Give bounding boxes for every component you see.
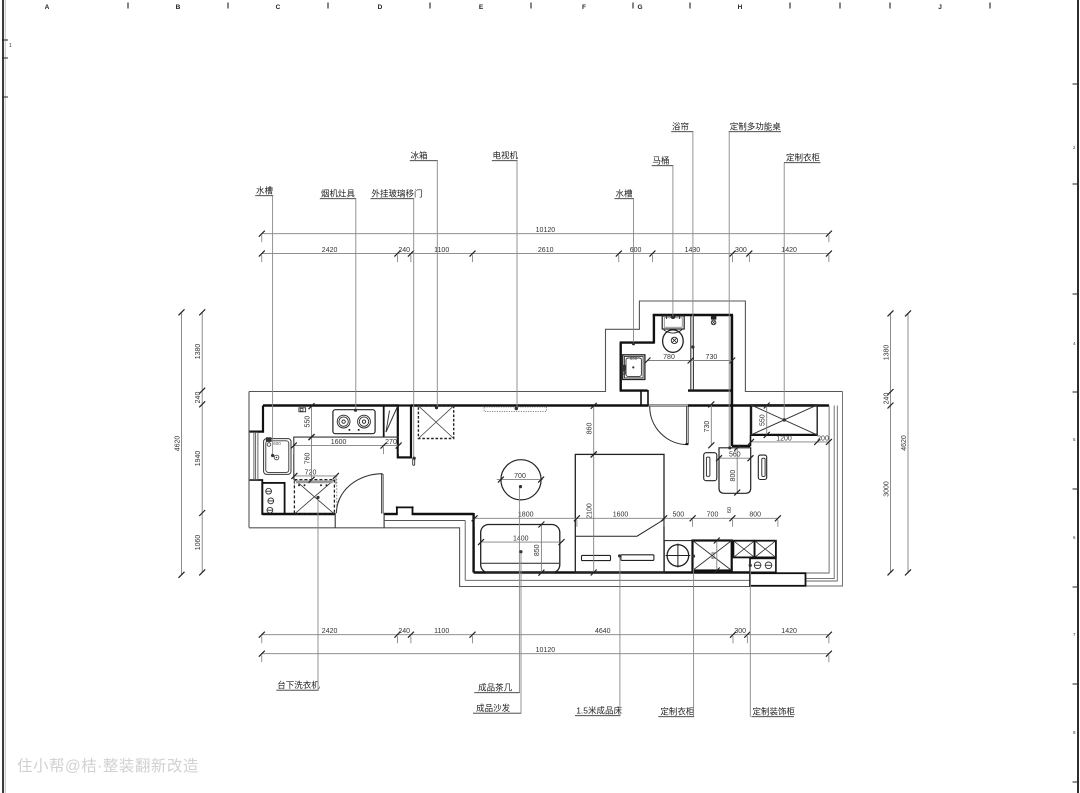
tea table circle 700 bbox=[501, 460, 541, 500]
svg-text:240: 240 bbox=[883, 393, 890, 405]
sliding door stub bbox=[413, 458, 415, 465]
svg-text:电视机: 电视机 bbox=[493, 151, 519, 161]
svg-text:1100: 1100 bbox=[434, 247, 449, 254]
svg-text:4620: 4620 bbox=[174, 436, 181, 452]
svg-text:C: C bbox=[276, 4, 281, 11]
svg-text:成品茶几: 成品茶几 bbox=[478, 683, 513, 693]
dims 1800/1600/500/700/800 bbox=[475, 517, 778, 519]
bathroom bottom wall bbox=[620, 389, 648, 391]
washer dim 720 bbox=[294, 475, 336, 477]
entry platform bbox=[750, 573, 806, 586]
top ruler ticks bbox=[127, 3, 129, 9]
svg-text:1380: 1380 bbox=[195, 344, 202, 360]
svg-text:600: 600 bbox=[273, 441, 281, 446]
svg-text:2100: 2100 bbox=[587, 503, 594, 519]
svg-text:1600: 1600 bbox=[613, 512, 629, 519]
svg-text:定制多功能桌: 定制多功能桌 bbox=[730, 122, 782, 132]
bathroom wall left bbox=[653, 315, 655, 344]
wardrobe 700 x-box bbox=[693, 541, 732, 571]
wall middle line right section bbox=[465, 579, 750, 581]
svg-text:4620: 4620 bbox=[901, 435, 908, 451]
svg-text:H: H bbox=[738, 4, 743, 11]
kitchen counter edge bbox=[294, 437, 399, 480]
bathroom sink bbox=[623, 355, 645, 380]
svg-text:1100: 1100 bbox=[434, 628, 449, 635]
svg-text:J: J bbox=[938, 4, 942, 11]
svg-text:马桶: 马桶 bbox=[653, 156, 670, 166]
entry pillar bump bbox=[397, 507, 413, 513]
svg-text:730: 730 bbox=[704, 421, 711, 433]
svg-text:1380: 1380 bbox=[883, 345, 890, 361]
svg-text:外挂玻璃移门: 外挂玻璃移门 bbox=[372, 189, 423, 199]
left outer dim 4620 bbox=[181, 312, 183, 575]
top dim row 10120 bbox=[262, 233, 829, 235]
left ruler ticks bbox=[2, 39, 8, 41]
bathroom dims 780/730 bbox=[648, 360, 733, 362]
svg-text:4640: 4640 bbox=[595, 628, 611, 635]
kitchen dim 760 bbox=[311, 437, 313, 480]
dish rack bbox=[383, 406, 385, 437]
decor cabinet x-boxes bbox=[733, 541, 754, 558]
svg-text:850: 850 bbox=[534, 544, 541, 556]
svg-text:200: 200 bbox=[817, 435, 829, 442]
dim 730 desk bbox=[710, 404, 712, 445]
svg-text:1060: 1060 bbox=[195, 535, 202, 551]
svg-text:成品沙发: 成品沙发 bbox=[476, 703, 511, 713]
left inner dims bbox=[201, 312, 203, 572]
chair right bbox=[758, 455, 766, 479]
svg-text:住小帮@桔·整装翻新改造: 住小帮@桔·整装翻新改造 bbox=[17, 757, 199, 775]
bed dims 860/2100 bbox=[593, 406, 595, 455]
svg-text:800: 800 bbox=[730, 470, 737, 482]
wall kitchen left inner bbox=[250, 406, 264, 432]
svg-text:240: 240 bbox=[398, 247, 410, 254]
svg-text:720: 720 bbox=[305, 469, 317, 476]
svg-text:定制装饰柜: 定制装饰柜 bbox=[753, 707, 796, 717]
window right / balcony lines bbox=[806, 406, 830, 574]
bathroom wall top bbox=[653, 314, 733, 317]
svg-text:600: 600 bbox=[630, 247, 642, 254]
shoe cabinet bottom right bbox=[750, 558, 776, 572]
wall outer boundary bottom-left bbox=[249, 528, 750, 587]
bottom dim row segments bbox=[262, 634, 829, 636]
bathroom/duct right wall bbox=[731, 315, 734, 446]
svg-text:G: G bbox=[637, 4, 642, 11]
entry door jambs bbox=[334, 513, 336, 528]
step wall vertical bbox=[472, 513, 474, 573]
svg-text:定制衣柜: 定制衣柜 bbox=[786, 153, 821, 163]
svg-text:10120: 10120 bbox=[536, 647, 556, 654]
svg-text:A: A bbox=[45, 4, 50, 11]
stove bbox=[333, 410, 375, 434]
svg-text:800: 800 bbox=[749, 512, 761, 519]
svg-text:860: 860 bbox=[587, 423, 594, 435]
bathroom door arc bbox=[650, 407, 688, 445]
svg-text:水槽: 水槽 bbox=[256, 186, 274, 196]
svg-text:700: 700 bbox=[707, 512, 719, 519]
right inner dims bbox=[890, 313, 892, 572]
svg-text:2420: 2420 bbox=[322, 628, 338, 635]
bottom wall left section bbox=[262, 513, 335, 515]
svg-text:1420: 1420 bbox=[781, 628, 797, 635]
svg-text:定制衣柜: 定制衣柜 bbox=[660, 707, 695, 717]
svg-text:300: 300 bbox=[735, 247, 747, 254]
svg-text:550: 550 bbox=[304, 416, 311, 428]
bathroom alcove left wall bbox=[620, 343, 622, 392]
svg-text:1200: 1200 bbox=[776, 435, 792, 442]
desk dim 800 bbox=[736, 448, 738, 493]
chair left bbox=[704, 453, 717, 481]
sofa dim 1400 bbox=[481, 541, 562, 543]
svg-text:850: 850 bbox=[711, 551, 716, 559]
bathroom door jamb bbox=[647, 390, 649, 406]
top dim row segments bbox=[262, 253, 829, 255]
svg-text:烟机灶具: 烟机灶具 bbox=[321, 189, 356, 199]
svg-text:1940: 1940 bbox=[195, 451, 202, 467]
bathroom alcove top wall bbox=[620, 341, 654, 343]
shower head bbox=[711, 316, 717, 320]
left ruler bar bbox=[2, 0, 4, 793]
washing machine dashed bbox=[294, 480, 334, 514]
desk multifunction bbox=[719, 448, 751, 494]
svg-text:1800: 1800 bbox=[518, 512, 534, 519]
wall column kitchen right bbox=[398, 406, 411, 458]
bottom dim row 10120 bbox=[262, 653, 829, 655]
svg-text:730: 730 bbox=[706, 354, 718, 361]
kitchen sink faucet bbox=[266, 437, 272, 442]
svg-text:D: D bbox=[378, 4, 383, 11]
entry door arc bbox=[336, 474, 382, 513]
fridge dashed bbox=[418, 406, 453, 439]
right ruler bar bbox=[1077, 0, 1079, 793]
bathroom door threshold bbox=[648, 404, 688, 406]
svg-text:浴帘: 浴帘 bbox=[672, 122, 689, 132]
bottom wall right section bbox=[474, 571, 750, 573]
svg-text:水槽: 水槽 bbox=[616, 189, 634, 199]
right outer dim 4620 bbox=[907, 313, 909, 572]
top ruler letters bbox=[45, 4, 943, 11]
svg-text:E: E bbox=[479, 4, 484, 11]
kitchen sink bbox=[264, 439, 291, 475]
shower partition bbox=[690, 316, 692, 390]
wall outer boundary top bbox=[249, 301, 843, 392]
svg-text:2420: 2420 bbox=[322, 247, 338, 254]
wall middle line left section bbox=[384, 520, 465, 522]
wall left below window bbox=[250, 480, 263, 515]
wash basin circle bbox=[663, 541, 665, 572]
svg-text:B: B bbox=[176, 4, 181, 11]
svg-text:冰箱: 冰箱 bbox=[411, 151, 429, 161]
svg-text:2610: 2610 bbox=[538, 247, 554, 254]
gas meter box bbox=[299, 408, 306, 412]
svg-text:300: 300 bbox=[734, 628, 746, 635]
svg-text:60: 60 bbox=[727, 507, 733, 513]
wardrobe 1200 x-box bbox=[751, 405, 817, 435]
svg-text:1: 1 bbox=[9, 43, 12, 49]
wall kitchen top bbox=[263, 404, 399, 406]
svg-text:1400: 1400 bbox=[513, 536, 529, 543]
tv dotted bbox=[484, 407, 546, 412]
svg-text:560: 560 bbox=[729, 452, 741, 459]
svg-text:1.5米成品床: 1.5米成品床 bbox=[576, 706, 622, 716]
svg-text:700: 700 bbox=[514, 473, 526, 480]
shoe cabinet circles box bbox=[262, 483, 284, 514]
sofa bbox=[481, 525, 560, 573]
kitchen dim 1600/270 bbox=[294, 445, 399, 447]
svg-text:1600: 1600 bbox=[331, 439, 347, 446]
toilet bbox=[662, 316, 684, 329]
svg-text:550: 550 bbox=[760, 414, 767, 426]
kitchen dim 550 bbox=[311, 406, 313, 437]
svg-text:760: 760 bbox=[304, 452, 311, 464]
wardrobe left wall stub bbox=[750, 405, 752, 436]
svg-text:F: F bbox=[582, 4, 586, 11]
svg-text:270: 270 bbox=[385, 439, 397, 446]
wall top main right of kitchen bbox=[411, 404, 648, 406]
svg-text:240: 240 bbox=[195, 392, 202, 404]
svg-text:240: 240 bbox=[398, 628, 410, 635]
svg-text:10120: 10120 bbox=[536, 227, 556, 234]
wall outer boundary left bbox=[248, 392, 250, 528]
svg-text:600: 600 bbox=[630, 356, 638, 361]
sofa dim 850 bbox=[540, 525, 542, 573]
bed 1.5m bbox=[575, 454, 664, 572]
desk dim 560 bbox=[719, 457, 751, 459]
svg-text:1420: 1420 bbox=[781, 247, 797, 254]
desk back wall bbox=[732, 445, 751, 447]
right ruler ticks bbox=[1073, 83, 1078, 85]
svg-text:3000: 3000 bbox=[883, 481, 890, 497]
window left wall bbox=[248, 432, 250, 480]
svg-text:780: 780 bbox=[663, 354, 675, 361]
svg-text:台下洗衣机: 台下洗衣机 bbox=[277, 680, 320, 690]
svg-text:500: 500 bbox=[672, 512, 684, 519]
